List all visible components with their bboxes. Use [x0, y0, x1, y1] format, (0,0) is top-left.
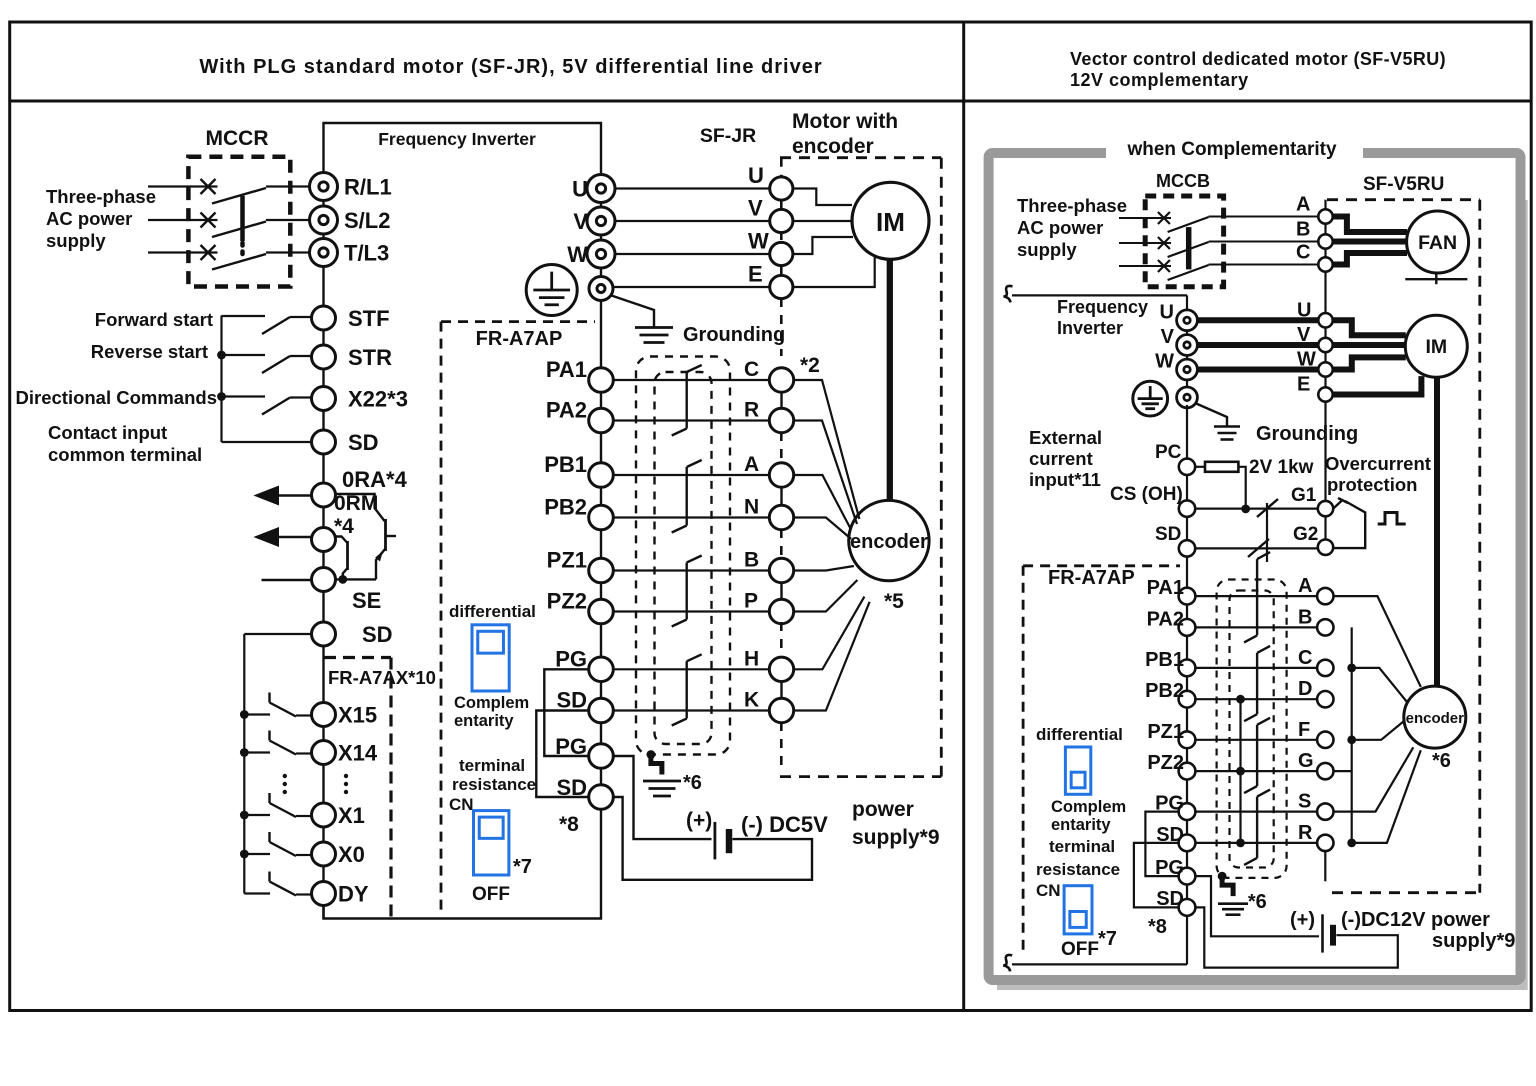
svg-text:U: U [572, 177, 588, 202]
svg-text:CS (OH): CS (OH) [1110, 484, 1183, 505]
svg-text:External: External [1029, 427, 1102, 448]
svg-text:(+): (+) [686, 809, 712, 832]
svg-text:encoder: encoder [1406, 710, 1465, 727]
svg-text:X1: X1 [338, 803, 365, 828]
svg-text:AC power: AC power [1017, 217, 1103, 238]
svg-text:X14: X14 [338, 741, 378, 766]
svg-text:X22*3: X22*3 [348, 387, 408, 412]
svg-text:IM: IM [1425, 336, 1447, 358]
svg-text:U: U [1160, 301, 1174, 323]
svg-text:*8: *8 [1148, 916, 1167, 938]
svg-text:With PLG standard motor (SF-JR: With PLG standard motor (SF-JR), 5V diff… [199, 56, 822, 78]
svg-text:CN: CN [449, 795, 474, 814]
svg-text:*5: *5 [884, 590, 904, 613]
svg-text:Motor with: Motor with [792, 110, 898, 133]
svg-text:SF-V5RU: SF-V5RU [1363, 174, 1444, 195]
svg-text:Grounding: Grounding [683, 324, 785, 346]
svg-text:(+): (+) [1290, 909, 1315, 931]
svg-text:common terminal: common terminal [48, 444, 202, 465]
svg-text:P: P [744, 590, 758, 613]
svg-text:*7: *7 [1098, 928, 1117, 950]
svg-text:A: A [1298, 575, 1312, 597]
svg-text:*7: *7 [513, 856, 532, 878]
svg-text:U: U [1297, 299, 1311, 321]
svg-text:R: R [744, 399, 759, 422]
svg-text:2V 1kw: 2V 1kw [1249, 457, 1314, 478]
svg-text:PC: PC [1155, 442, 1182, 463]
svg-text:*8: *8 [559, 813, 579, 836]
svg-text:PG: PG [555, 646, 587, 671]
svg-text:AC power: AC power [46, 208, 132, 229]
svg-text:W: W [748, 229, 769, 254]
svg-text:R/L1: R/L1 [344, 175, 392, 200]
svg-text:resistance: resistance [1036, 860, 1120, 879]
svg-text:Contact input: Contact input [48, 422, 167, 443]
svg-text:S/L2: S/L2 [344, 208, 390, 233]
svg-text:C: C [1296, 242, 1310, 264]
svg-text:supply: supply [1017, 239, 1077, 260]
svg-text:E: E [748, 262, 763, 287]
svg-text:Complem: Complem [1051, 798, 1126, 816]
svg-text:CN: CN [1036, 881, 1061, 900]
svg-text:PZ2: PZ2 [1147, 752, 1184, 774]
svg-text:Frequency: Frequency [1057, 297, 1148, 317]
svg-text:FR-A7AX*10: FR-A7AX*10 [328, 667, 436, 688]
svg-text:F: F [1298, 719, 1310, 741]
svg-text:Inverter: Inverter [1057, 318, 1123, 338]
svg-text:protection: protection [1327, 474, 1417, 495]
svg-text:STF: STF [348, 306, 390, 331]
svg-text:power: power [852, 798, 914, 821]
svg-text:Forward start: Forward start [95, 309, 213, 330]
svg-text:PZ1: PZ1 [547, 548, 587, 573]
svg-text:W: W [1155, 351, 1174, 373]
svg-text:FR-A7AP: FR-A7AP [1048, 567, 1135, 589]
svg-text:Grounding: Grounding [1256, 423, 1358, 445]
svg-text:*6: *6 [683, 772, 702, 794]
svg-text:U: U [748, 163, 764, 188]
svg-text:T/L3: T/L3 [344, 241, 389, 266]
svg-text:B: B [1298, 606, 1312, 628]
svg-text:DY: DY [338, 882, 369, 907]
svg-text:PZ2: PZ2 [547, 589, 587, 614]
svg-text:OFF: OFF [1061, 939, 1099, 960]
svg-text:*6: *6 [1432, 750, 1451, 772]
svg-text:current: current [1029, 448, 1093, 469]
svg-text:V: V [1161, 326, 1175, 348]
svg-text:encoder: encoder [850, 531, 928, 553]
svg-text:SE: SE [352, 588, 381, 613]
svg-text:12V complementary: 12V complementary [1070, 70, 1249, 90]
svg-text:FR-A7AP: FR-A7AP [476, 328, 563, 350]
svg-text:W: W [1297, 349, 1316, 371]
svg-text:encoder: encoder [792, 135, 874, 158]
svg-text:C: C [1298, 647, 1312, 669]
svg-text:V: V [1297, 324, 1311, 346]
svg-text:0RA*4: 0RA*4 [342, 467, 408, 492]
svg-text:supply*9: supply*9 [1432, 930, 1515, 952]
svg-text:H: H [744, 647, 759, 670]
svg-text:OFF: OFF [472, 884, 510, 905]
svg-text:STR: STR [348, 345, 392, 370]
svg-text:(-)DC12V power: (-)DC12V power [1341, 909, 1490, 931]
svg-text:Vector control dedicated motor: Vector control dedicated motor (SF-V5RU) [1070, 49, 1446, 69]
svg-text:W: W [567, 242, 588, 267]
svg-text:G1: G1 [1291, 485, 1317, 506]
svg-text:S: S [1298, 791, 1311, 813]
svg-text:Frequency Inverter: Frequency Inverter [378, 129, 536, 149]
svg-text:PA1: PA1 [1147, 577, 1184, 599]
svg-text:X15: X15 [338, 703, 377, 728]
svg-text:V: V [748, 196, 763, 221]
svg-text:N: N [744, 496, 759, 519]
svg-text:C: C [744, 358, 759, 381]
svg-text:*6: *6 [1248, 891, 1267, 913]
svg-text:B: B [1296, 219, 1310, 241]
svg-text:SD: SD [556, 688, 587, 713]
svg-text:B: B [744, 549, 759, 572]
svg-text:MCCR: MCCR [206, 127, 269, 150]
svg-text:MCCB: MCCB [1156, 171, 1210, 191]
svg-text:A: A [1296, 194, 1310, 216]
svg-text:SF-JR: SF-JR [700, 125, 756, 147]
svg-text:X0: X0 [338, 842, 365, 867]
svg-text:PZ1: PZ1 [1147, 721, 1184, 743]
svg-text:terminal: terminal [459, 756, 525, 775]
svg-text:PB2: PB2 [1145, 680, 1184, 702]
svg-text:PB2: PB2 [544, 495, 587, 520]
svg-text:G2: G2 [1293, 524, 1318, 545]
svg-text:resistance: resistance [452, 775, 536, 794]
svg-text:entarity: entarity [454, 712, 514, 730]
svg-text:Three-phase: Three-phase [46, 186, 156, 207]
svg-text:PB1: PB1 [544, 452, 587, 477]
svg-text:Overcurrent: Overcurrent [1325, 453, 1431, 474]
svg-text:K: K [744, 689, 759, 712]
svg-text:E: E [1297, 374, 1310, 396]
svg-text:SD: SD [348, 430, 379, 455]
svg-text:*4: *4 [334, 515, 354, 538]
svg-text:supply*9: supply*9 [852, 826, 940, 849]
svg-text:*2: *2 [800, 354, 820, 377]
svg-text:FAN: FAN [1418, 232, 1457, 254]
svg-text:entarity: entarity [1051, 816, 1111, 834]
svg-text:differential: differential [449, 602, 536, 621]
svg-text:differential: differential [1036, 725, 1123, 744]
svg-text:PA2: PA2 [1147, 608, 1184, 630]
svg-text:A: A [744, 453, 759, 476]
svg-text:when Complementarity: when Complementarity [1126, 139, 1336, 160]
svg-text:V: V [573, 209, 588, 234]
svg-text:input*11: input*11 [1029, 469, 1101, 490]
svg-text:G: G [1298, 750, 1314, 772]
svg-text:SD: SD [362, 622, 393, 647]
svg-text:Three-phase: Three-phase [1017, 195, 1127, 216]
svg-text:Reverse start: Reverse start [91, 341, 208, 362]
svg-text:D: D [1298, 678, 1312, 700]
svg-text:PA2: PA2 [546, 398, 587, 423]
svg-text:supply: supply [46, 230, 106, 251]
svg-text:PB1: PB1 [1145, 649, 1184, 671]
svg-text:0RM: 0RM [334, 492, 378, 515]
svg-text:PA1: PA1 [546, 357, 587, 382]
svg-text:IM: IM [876, 207, 905, 237]
svg-text:Directional Commands: Directional Commands [16, 387, 218, 408]
svg-text:SD: SD [1155, 524, 1181, 545]
svg-text:Complem: Complem [454, 694, 529, 712]
svg-text:(-) DC5V: (-) DC5V [741, 812, 828, 837]
svg-text:terminal: terminal [1049, 837, 1115, 856]
svg-text:R: R [1298, 822, 1313, 844]
